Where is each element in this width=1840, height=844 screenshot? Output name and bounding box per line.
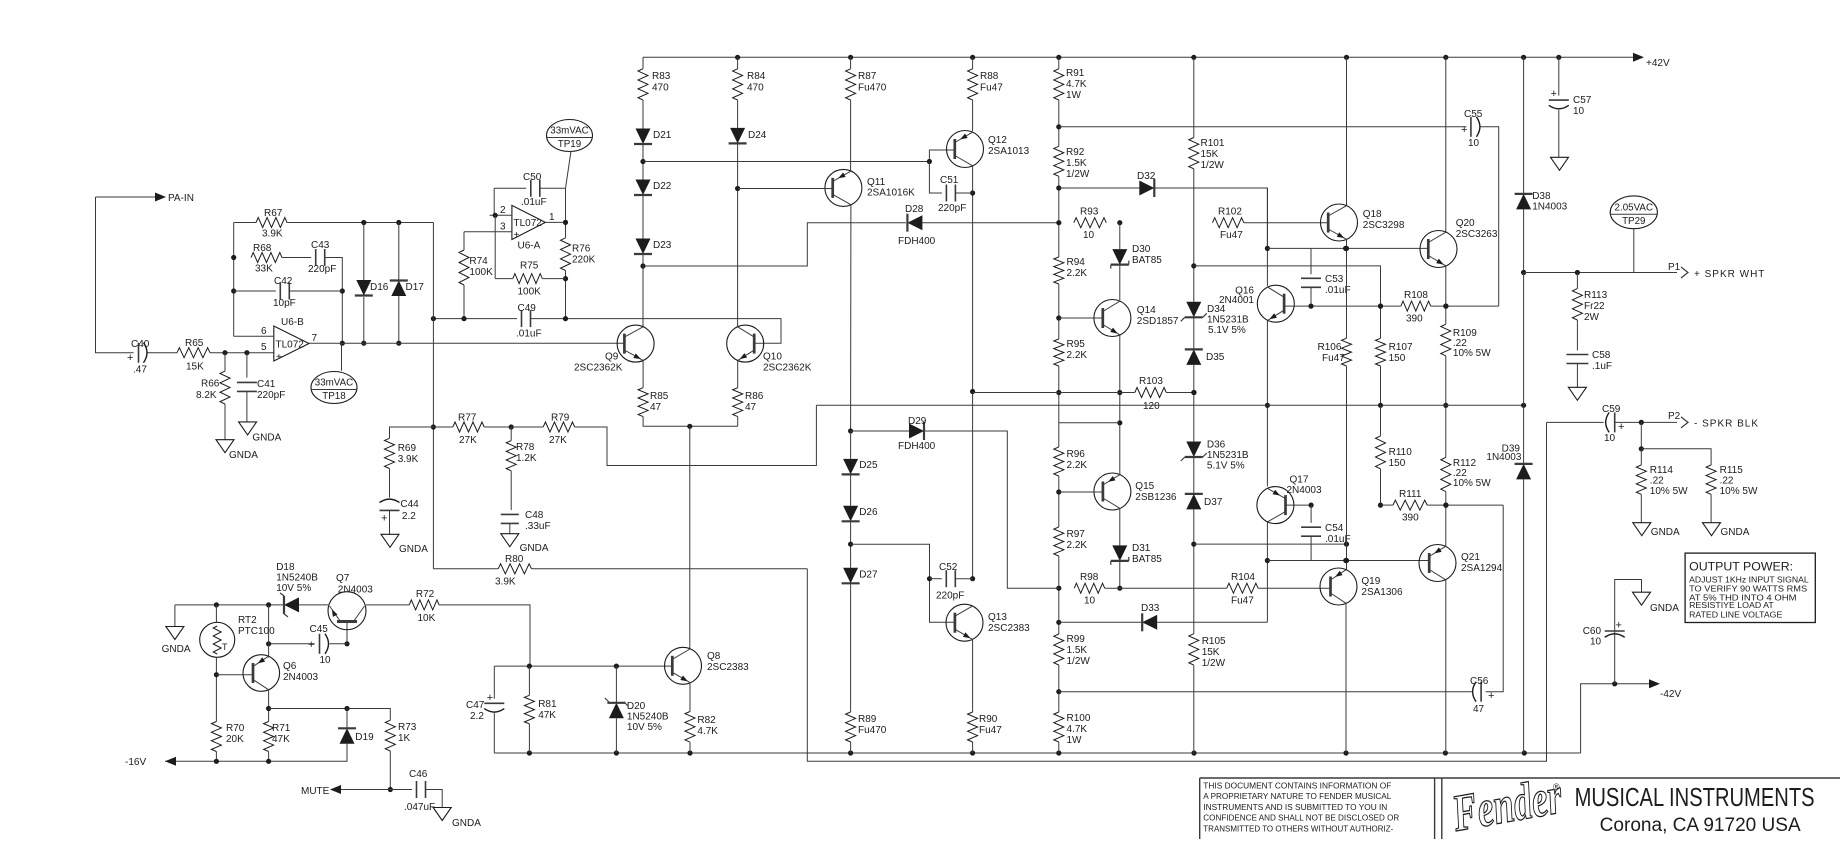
svg-text:15K: 15K [186,362,204,373]
svg-text:D22: D22 [653,181,672,192]
svg-text:2SD1857: 2SD1857 [1137,316,1179,327]
svg-text:Q10: Q10 [763,352,782,363]
svg-text:2.2K: 2.2K [1067,540,1088,551]
svg-text:Q15: Q15 [1135,481,1154,492]
svg-text:33mVAC: 33mVAC [550,126,588,137]
svg-text:R103: R103 [1139,376,1163,387]
svg-text:2SA1306: 2SA1306 [1361,587,1403,598]
svg-text:1N5240B: 1N5240B [276,573,318,584]
svg-text:U6-B: U6-B [281,317,304,328]
svg-text:Q9: Q9 [605,352,619,363]
svg-text:10% 5W: 10% 5W [1453,478,1491,489]
svg-text:TO VERIFY 90 WATTS RMS: TO VERIFY 90 WATTS RMS [1689,584,1807,593]
svg-text:R95: R95 [1067,339,1086,350]
svg-text:TP19: TP19 [558,139,581,150]
svg-text:2N4003: 2N4003 [1287,485,1322,496]
svg-text:10% 5W: 10% 5W [1720,486,1758,497]
svg-text:R89: R89 [858,714,877,725]
svg-text:R73: R73 [398,722,417,733]
svg-text:CONFIDENCE AND SHALL NOT BE DI: CONFIDENCE AND SHALL NOT BE DISCLOSED OR [1203,814,1399,823]
svg-text:R85: R85 [650,391,669,402]
svg-text:.33uF: .33uF [525,521,551,532]
svg-text:C59: C59 [1602,404,1621,415]
svg-text:8.2K: 8.2K [196,390,217,401]
svg-text:4.7K: 4.7K [697,726,718,737]
svg-text:.01uF: .01uF [516,329,542,340]
svg-text:R91: R91 [1066,68,1085,79]
svg-text:1.5K: 1.5K [1066,158,1087,169]
svg-text:470: 470 [747,83,764,94]
svg-text:150: 150 [1389,458,1406,469]
svg-text:R71: R71 [272,723,291,734]
svg-text:.1uF: .1uF [1592,361,1612,372]
svg-text:1/2W: 1/2W [1201,160,1225,171]
svg-text:R92: R92 [1066,147,1085,158]
svg-text:Fr22: Fr22 [1584,301,1605,312]
svg-text:.22: .22 [1650,476,1664,487]
svg-text:D24: D24 [748,130,767,141]
svg-text:2SC3298: 2SC3298 [1363,220,1405,231]
svg-text:C41: C41 [257,379,276,390]
svg-text:1/2W: 1/2W [1066,169,1090,180]
svg-text:C60: C60 [1583,626,1602,637]
svg-text:Q19: Q19 [1361,576,1380,587]
svg-text:GNDA: GNDA [520,543,549,554]
svg-text:GNDA: GNDA [1651,527,1680,538]
svg-text:C58: C58 [1592,350,1611,361]
svg-text:3: 3 [500,222,506,233]
svg-text:R113: R113 [1584,290,1608,301]
svg-text:+: + [1461,124,1467,136]
svg-text:220K: 220K [572,255,596,266]
svg-text:R90: R90 [979,714,998,725]
svg-text:R93: R93 [1080,207,1099,218]
svg-text:2.05VAC: 2.05VAC [1615,202,1653,213]
svg-text:1.2K: 1.2K [516,453,537,464]
svg-text:D37: D37 [1204,497,1223,508]
svg-text:Q8: Q8 [707,651,721,662]
svg-text:R105: R105 [1202,636,1226,647]
svg-text:47: 47 [1473,704,1485,715]
svg-text:1N5231B: 1N5231B [1207,315,1249,326]
svg-text:.01uF: .01uF [521,197,547,208]
svg-text:C40: C40 [131,339,150,350]
svg-text:390: 390 [1406,314,1423,325]
svg-text:3.9K: 3.9K [495,577,516,588]
svg-text:3.9K: 3.9K [398,454,419,465]
svg-text:RESISTIYE LOAD AT: RESISTIYE LOAD AT [1689,601,1774,610]
svg-text:R86: R86 [745,391,764,402]
svg-text:U6-A: U6-A [518,241,541,252]
svg-text:R81: R81 [538,699,557,710]
svg-text:100K: 100K [518,287,542,298]
svg-text:390: 390 [1402,513,1419,524]
svg-text:R76: R76 [572,244,591,255]
svg-text:+: + [487,692,493,704]
svg-text:D36: D36 [1207,440,1226,451]
svg-text:R79: R79 [551,413,570,424]
svg-text:GNDA: GNDA [399,544,428,555]
svg-text:2SC2362K: 2SC2362K [574,363,623,374]
svg-text:D16: D16 [370,282,389,293]
svg-text:2SA1013: 2SA1013 [988,146,1030,157]
svg-text:TP18: TP18 [322,391,346,402]
svg-text:R101: R101 [1201,138,1225,149]
svg-text:D26: D26 [859,507,878,518]
svg-text:+: + [514,230,520,241]
svg-text:.22: .22 [1720,476,1734,487]
svg-text:C47: C47 [466,700,485,711]
svg-text:Fu470: Fu470 [858,83,887,94]
svg-text:-16V: -16V [125,757,146,768]
svg-text:A PROPRIETARY NATURE TO FENDER: A PROPRIETARY NATURE TO FENDER MUSICAL [1203,792,1392,801]
svg-text:10K: 10K [418,613,436,624]
svg-text:27K: 27K [459,435,477,446]
svg-text:33mVAC: 33mVAC [315,378,353,389]
svg-text:D27: D27 [859,570,878,581]
svg-text:R72: R72 [416,589,435,600]
svg-text:RATED LINE VOLTAGE: RATED LINE VOLTAGE [1689,610,1782,619]
svg-text:470: 470 [652,83,669,94]
svg-text:R110: R110 [1389,447,1413,458]
svg-text:220pF: 220pF [308,264,336,275]
svg-text:2SC3263: 2SC3263 [1456,229,1498,240]
svg-text:GNDA: GNDA [1650,603,1679,614]
svg-text:10V 5%: 10V 5% [627,722,662,733]
svg-text:PTC100: PTC100 [238,626,275,637]
svg-text:Q20: Q20 [1456,218,1475,229]
svg-text:C54: C54 [1325,523,1344,534]
svg-text:MUTE: MUTE [301,786,330,797]
svg-text:D25: D25 [859,460,878,471]
svg-text:R97: R97 [1067,529,1086,540]
svg-text:ADJUST 1KHz INPUT SIGNAL: ADJUST 1KHz INPUT SIGNAL [1689,575,1809,584]
svg-text:4.7K: 4.7K [1067,724,1088,735]
svg-text:+42V: +42V [1646,58,1670,69]
svg-text:47: 47 [650,402,662,413]
svg-text:R77: R77 [458,413,477,424]
svg-text:INSTRUMENTS AND IS SUBMITTED T: INSTRUMENTS AND IS SUBMITTED TO YOU IN [1203,803,1387,812]
svg-text:-42V: -42V [1660,689,1681,700]
svg-text:C42: C42 [274,276,293,287]
svg-text:+: + [1551,88,1557,100]
svg-text:+: + [381,513,387,525]
svg-text:D18: D18 [276,562,295,573]
svg-text:D20: D20 [627,701,646,712]
svg-text:2.2K: 2.2K [1067,460,1088,471]
svg-text:+: + [308,639,314,651]
svg-text:15K: 15K [1201,149,1219,160]
svg-text:R74: R74 [469,256,488,267]
svg-text:+: + [1616,620,1622,632]
svg-text:220pF: 220pF [938,203,966,214]
svg-text:27K: 27K [549,435,567,446]
svg-text:R87: R87 [858,71,877,82]
svg-text:1/2W: 1/2W [1067,656,1091,667]
svg-text:C51: C51 [940,175,959,186]
svg-text:2SB1236: 2SB1236 [1135,492,1177,503]
svg-text:D35: D35 [1206,352,1225,363]
svg-text:1W: 1W [1066,90,1082,101]
svg-text:10: 10 [1604,433,1616,444]
svg-text:D33: D33 [1141,603,1160,614]
svg-text:R75: R75 [520,261,539,272]
svg-text:2SA1294: 2SA1294 [1461,563,1503,574]
svg-text:10% 5W: 10% 5W [1453,348,1491,359]
svg-text:TL072: TL072 [514,218,543,229]
svg-text:1.5K: 1.5K [1067,645,1088,656]
svg-text:GNDA: GNDA [252,433,281,444]
svg-text:1N5231B: 1N5231B [1207,450,1249,461]
svg-text:Fu47: Fu47 [1220,230,1243,241]
svg-text:10: 10 [1083,230,1095,241]
svg-text:P2: P2 [1668,411,1681,422]
svg-text:D38: D38 [1532,191,1551,202]
svg-text:2W: 2W [1584,312,1600,323]
svg-text:R65: R65 [185,338,204,349]
svg-text:R114: R114 [1650,465,1674,476]
svg-text:FDH400: FDH400 [898,236,936,247]
svg-text:1K: 1K [398,733,411,744]
svg-text:D31: D31 [1132,543,1151,554]
svg-text:47K: 47K [538,710,556,721]
svg-text:C48: C48 [525,510,544,521]
svg-text:2: 2 [500,205,506,216]
svg-text:D21: D21 [653,130,672,141]
svg-text:Q11: Q11 [867,177,886,188]
svg-text:3.9K: 3.9K [262,229,283,240]
svg-text:2SC2362K: 2SC2362K [763,363,812,374]
svg-text:R94: R94 [1067,257,1086,268]
svg-text:R111: R111 [1399,489,1422,500]
svg-text:+: + [276,352,282,363]
svg-text:R107: R107 [1389,342,1413,353]
svg-text:2SC2383: 2SC2383 [707,662,749,673]
svg-text:R80: R80 [505,554,524,565]
svg-text:10: 10 [320,655,332,666]
svg-text:1N4003: 1N4003 [1486,452,1521,463]
svg-text:R99: R99 [1067,634,1086,645]
svg-text:R66: R66 [201,379,220,390]
svg-text:OUTPUT POWER:: OUTPUT POWER: [1689,560,1793,574]
svg-text:Corona, CA 91720 USA: Corona, CA 91720 USA [1600,815,1801,836]
svg-text:Fu47: Fu47 [979,725,1002,736]
svg-text:MUSICAL INSTRUMENTS: MUSICAL INSTRUMENTS [1575,782,1815,812]
svg-text:PA-IN: PA-IN [168,193,194,204]
svg-text:®: ® [1553,782,1560,792]
svg-text:C57: C57 [1573,95,1592,106]
svg-text:10: 10 [1468,138,1480,149]
svg-text:FDH400: FDH400 [898,441,936,452]
svg-text:R115: R115 [1720,465,1744,476]
svg-text:2N4003: 2N4003 [283,672,318,683]
svg-text:C53: C53 [1325,274,1344,285]
svg-text:GNDA: GNDA [452,818,481,829]
svg-text:R108: R108 [1404,290,1428,301]
svg-text:2N4003: 2N4003 [338,585,373,596]
svg-text:1: 1 [549,212,555,223]
svg-text:R96: R96 [1067,449,1086,460]
svg-text:C50: C50 [523,172,542,183]
svg-text:1N5240B: 1N5240B [627,712,669,723]
svg-text:5: 5 [261,342,267,353]
svg-text:47: 47 [745,402,757,413]
svg-text:TP29: TP29 [1622,216,1645,227]
svg-text:10V 5%: 10V 5% [276,583,311,594]
svg-text:T: T [222,642,228,652]
svg-text:2.2: 2.2 [402,511,416,522]
svg-text:RT2: RT2 [238,615,257,626]
svg-text:1N4003: 1N4003 [1532,202,1567,213]
svg-text:R78: R78 [516,442,535,453]
svg-text:+: + [127,352,133,364]
svg-text:150: 150 [1389,353,1406,364]
svg-text:120: 120 [1143,401,1160,412]
svg-text:2.2K: 2.2K [1067,350,1088,361]
svg-text:100K: 100K [469,267,493,278]
svg-text:D30: D30 [1132,244,1151,255]
svg-text:10% 5W: 10% 5W [1650,486,1688,497]
svg-text:D23: D23 [653,240,672,251]
svg-text:15K: 15K [1202,647,1220,658]
svg-text:C44: C44 [400,499,419,510]
svg-text:Q7: Q7 [336,573,350,584]
svg-text:10: 10 [1573,106,1585,117]
svg-text:.047uF: .047uF [404,802,435,813]
svg-text:10: 10 [1590,637,1602,648]
svg-text:5.1V 5%: 5.1V 5% [1208,325,1246,336]
svg-text:Fu47: Fu47 [1322,353,1345,364]
svg-text:Q12: Q12 [988,135,1007,146]
svg-text:33K: 33K [255,264,273,275]
svg-text:C55: C55 [1464,109,1483,120]
svg-text:R83: R83 [652,71,671,82]
svg-text:R104: R104 [1231,572,1255,583]
svg-text:20K: 20K [226,734,244,745]
svg-text:GNDA: GNDA [1721,527,1750,538]
svg-text:C46: C46 [409,769,428,780]
svg-text:THIS DOCUMENT CONTAINS INFORMA: THIS DOCUMENT CONTAINS INFORMATION OF [1203,782,1391,791]
svg-text:BAT85: BAT85 [1132,255,1162,266]
svg-text:C56: C56 [1470,676,1489,687]
svg-text:5.1V 5%: 5.1V 5% [1207,461,1245,472]
svg-text:1W: 1W [1067,735,1083,746]
svg-text:D17: D17 [406,282,425,293]
svg-text:C52: C52 [939,562,958,573]
svg-text:R84: R84 [747,71,766,82]
svg-text:Q21: Q21 [1461,552,1480,563]
svg-text:10: 10 [1084,596,1096,607]
svg-text:220pF: 220pF [936,591,964,602]
svg-text:BAT85: BAT85 [1132,554,1162,565]
svg-text:GNDA: GNDA [162,644,191,655]
svg-text:C43: C43 [311,240,330,251]
svg-text:1/2W: 1/2W [1202,658,1226,669]
svg-text:D19: D19 [355,732,374,743]
svg-text:2SC2383: 2SC2383 [988,623,1030,634]
svg-text:47K: 47K [272,734,290,745]
svg-text:P1: P1 [1668,262,1681,273]
svg-text:R88: R88 [980,71,999,82]
svg-text:2.2: 2.2 [470,711,484,722]
svg-text:R69: R69 [398,443,417,454]
svg-text:- SPKR BLK: - SPKR BLK [1694,419,1759,430]
svg-text:TL072: TL072 [276,340,305,351]
svg-text:6: 6 [261,326,267,337]
svg-text:Fu47: Fu47 [980,83,1003,94]
svg-text:R68: R68 [253,243,272,254]
svg-text:R100: R100 [1067,713,1091,724]
svg-text:D32: D32 [1137,171,1156,182]
svg-text:220pF: 220pF [257,390,285,401]
svg-text:2N4001: 2N4001 [1219,295,1254,306]
svg-text:Q18: Q18 [1363,209,1382,220]
svg-text:10pF: 10pF [273,298,296,309]
svg-text:7: 7 [312,333,318,344]
svg-text:C49: C49 [518,303,537,314]
svg-text:R98: R98 [1080,572,1099,583]
svg-text:Fu470: Fu470 [858,725,887,736]
svg-text:2.2K: 2.2K [1067,268,1088,279]
svg-text:Q14: Q14 [1137,305,1156,316]
svg-text:4.7K: 4.7K [1066,79,1087,90]
svg-text:R67: R67 [264,208,283,219]
svg-text:Q13: Q13 [988,612,1007,623]
svg-text:GNDA: GNDA [229,450,258,461]
svg-text:Q6: Q6 [283,661,297,672]
svg-text:R70: R70 [226,723,245,734]
svg-text:R106: R106 [1318,342,1342,353]
svg-text:D28: D28 [905,204,924,215]
svg-text:TRANSMITTED TO OTHERS WITHOUT: TRANSMITTED TO OTHERS WITHOUT AUTHORIZ- [1203,824,1393,833]
svg-text:R82: R82 [697,715,716,726]
svg-text:2SA1016K: 2SA1016K [867,188,915,199]
svg-text:Q17: Q17 [1290,475,1309,486]
svg-text:R102: R102 [1218,207,1242,218]
svg-text:+ SPKR WHT: + SPKR WHT [1694,269,1765,280]
svg-text:Fu47: Fu47 [1231,596,1254,607]
svg-text:C45: C45 [310,624,329,635]
svg-text:D29: D29 [908,416,927,427]
svg-text:.47: .47 [133,365,147,376]
